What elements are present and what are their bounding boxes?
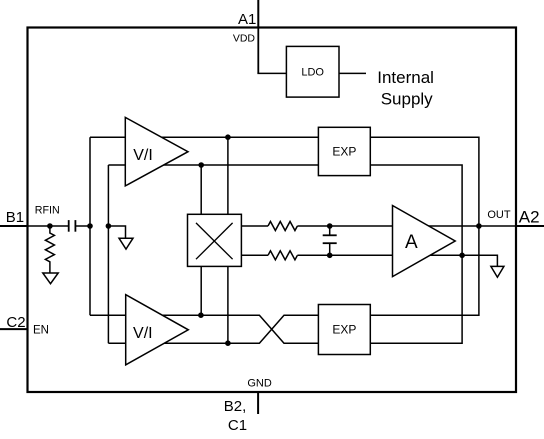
- svg-text:C2: C2: [6, 314, 25, 331]
- svg-text:B2,: B2,: [224, 398, 247, 415]
- svg-text:EN: EN: [33, 325, 49, 337]
- svg-text:V/I: V/I: [133, 325, 153, 342]
- svg-text:Supply: Supply: [381, 90, 433, 109]
- svg-text:C1: C1: [228, 417, 247, 434]
- svg-text:EXP: EXP: [332, 145, 356, 159]
- svg-text:V/I: V/I: [133, 147, 153, 164]
- svg-text:A2: A2: [519, 208, 540, 227]
- svg-text:VDD: VDD: [233, 32, 256, 44]
- svg-text:OUT: OUT: [487, 209, 511, 221]
- svg-text:RFIN: RFIN: [35, 204, 60, 216]
- svg-text:A: A: [405, 232, 418, 253]
- svg-text:GND: GND: [247, 377, 272, 389]
- svg-text:LDO: LDO: [301, 67, 324, 79]
- svg-text:B1: B1: [6, 209, 24, 226]
- svg-text:EXP: EXP: [332, 323, 356, 337]
- svg-text:A1: A1: [238, 11, 256, 28]
- svg-text:Internal: Internal: [377, 68, 434, 87]
